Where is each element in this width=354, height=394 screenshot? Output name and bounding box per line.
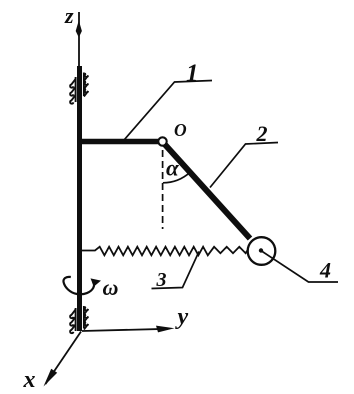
bearing hatch bottom-right (84, 306, 88, 330)
z-axis arrowhead (76, 21, 82, 38)
svg-text:4: 4 (319, 258, 331, 283)
x axis (46, 332, 82, 385)
leader line 2 (210, 143, 278, 188)
pivot O (158, 137, 166, 145)
angle arc alpha (163, 172, 190, 183)
svg-text:z: z (64, 3, 74, 28)
leader line 1 (124, 81, 212, 141)
bearing hatch bottom-left (70, 308, 75, 333)
arm 1 (horizontal bar) (77, 139, 159, 145)
leader line 4 (262, 251, 339, 282)
omega arrowhead (91, 278, 102, 286)
svg-text:α: α (166, 156, 180, 181)
x axis arrowhead (44, 369, 58, 387)
svg-text:ω: ω (103, 275, 119, 300)
omega rotation arrow (63, 277, 94, 294)
shaft (vertical rod) (77, 66, 82, 331)
bearing hatch top-right (84, 73, 88, 97)
svg-text:y: y (175, 304, 189, 330)
spring 3 (82, 247, 248, 256)
svg-text:1: 1 (186, 60, 199, 87)
svg-text:3: 3 (156, 269, 167, 291)
svg-text:2: 2 (256, 121, 268, 146)
svg-text:O: O (174, 120, 187, 140)
rod 2 (pendulum bar) (164, 144, 250, 239)
leader line 3 (152, 252, 200, 289)
dashed reference line (162, 150, 164, 229)
bearing hatch top-left (70, 77, 75, 104)
y axis arrowhead (156, 326, 175, 333)
svg-text:x: x (23, 367, 36, 393)
y axis (82, 329, 168, 331)
ball center dot (259, 248, 263, 252)
z-axis line (78, 12, 80, 67)
ball 4 (248, 237, 276, 265)
